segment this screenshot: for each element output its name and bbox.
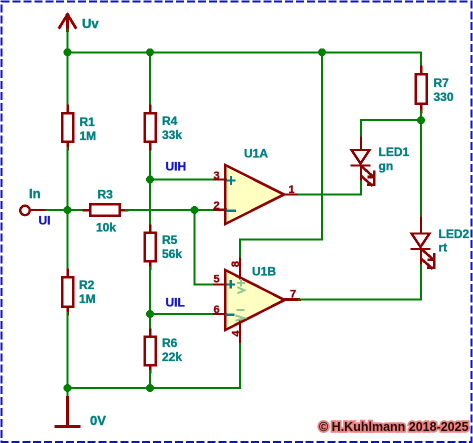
node junction R7-LED [417, 116, 425, 124]
svg-text:© H.Kuhlmann 2018-2025: © H.Kuhlmann 2018-2025 [319, 420, 469, 434]
svg-text:R3: R3 [98, 188, 114, 202]
ground 0V symbol [56, 398, 79, 427]
resistor R5 [145, 226, 156, 269]
wire top rail to R7 [68, 52, 422, 67]
svg-text:gn: gn [379, 159, 394, 173]
wire mid column between R5 R6 [149, 268, 151, 331]
svg-text:0V: 0V [90, 413, 106, 428]
wire U1B pin4 to bottom rail [239, 344, 241, 388]
node junction bottom-left [64, 384, 72, 392]
svg-text:LED1: LED1 [379, 145, 410, 159]
svg-text:LED2: LED2 [439, 227, 470, 241]
wire feed to U1B pin5 [195, 210, 215, 285]
svg-text:33k: 33k [162, 128, 182, 142]
svg-text:5: 5 [214, 274, 220, 286]
node junction top-left [64, 48, 72, 56]
wire In to left rail [47, 209, 68, 211]
wire R3 to U1A pin2 [126, 209, 215, 211]
node junction top-mid [146, 48, 154, 56]
wire R7 to junction [420, 111, 422, 120]
wire U1A output to LED1 [299, 179, 361, 195]
wire junction to LED2 [420, 120, 422, 218]
label R4 value 33k [162, 114, 182, 142]
node junction pin5 feed [191, 206, 199, 214]
svg-text:4: 4 [230, 330, 242, 337]
svg-text:Uv: Uv [82, 16, 99, 31]
svg-text:330: 330 [434, 90, 454, 104]
svg-text:R2: R2 [79, 278, 95, 292]
svg-text:1M: 1M [80, 129, 97, 143]
resistor R1 [62, 106, 73, 150]
wire left rail lower [67, 313, 69, 388]
svg-text:1: 1 [289, 184, 295, 196]
wire junction to LED1 [361, 120, 421, 138]
op-amp U1A [214, 165, 300, 224]
node junction bottom-mid [146, 384, 154, 392]
svg-text:rt: rt [439, 241, 448, 255]
svg-text:R6: R6 [162, 336, 178, 350]
label R7 value 330 [434, 76, 454, 104]
svg-text:10k: 10k [96, 221, 116, 235]
LED LED1 [352, 138, 375, 186]
node junction UIH [146, 176, 154, 184]
label R5 value 56k [162, 233, 182, 261]
resistor R7 [416, 67, 427, 113]
label R3 value 10k [96, 188, 116, 235]
wire left rail to R3 [68, 209, 85, 211]
wire ground feed [67, 388, 69, 398]
svg-text:R1: R1 [80, 115, 96, 129]
svg-text:UIL: UIL [166, 296, 185, 310]
pin In (input terminal) [20, 206, 47, 215]
wire mid column upper [149, 52, 151, 226]
wire mid column bottom [149, 371, 151, 388]
resistor R3 [84, 204, 128, 215]
label R6 value 22k [162, 336, 182, 364]
svg-text:In: In [29, 186, 41, 201]
supply symbol Uv [60, 15, 76, 31]
svg-text:1M: 1M [79, 292, 96, 306]
wire left rail middle [67, 148, 69, 271]
node junction top-U1B-power [318, 48, 326, 56]
op-amp U1B [214, 256, 300, 345]
svg-text:R5: R5 [162, 233, 178, 247]
svg-text:3: 3 [214, 170, 220, 182]
wire bottom rail [68, 387, 241, 389]
LED LED2 [412, 218, 435, 269]
wire output7 rail [299, 263, 421, 299]
resistor R4 [145, 106, 156, 150]
wire top rail to U1B pin8 [240, 52, 322, 256]
label LED2 rt [439, 227, 470, 255]
resistor R6 [145, 330, 156, 373]
wire left rail upper [67, 52, 69, 106]
svg-text:6: 6 [214, 304, 220, 316]
svg-text:22k: 22k [162, 350, 182, 364]
svg-text:R7: R7 [434, 76, 450, 90]
wire U1B output to LED2 [285, 298, 300, 300]
copyright text [319, 420, 469, 434]
resistor R2 [62, 270, 73, 314]
wire Uv stem [67, 30, 69, 53]
svg-text:UI: UI [39, 214, 51, 228]
wire UIH to U1A pin3 [150, 179, 215, 181]
node junction In-left-rail [64, 206, 72, 214]
label R2 value 1M [79, 278, 96, 306]
label LED1 gn [379, 145, 410, 173]
node junction UIL [146, 310, 154, 318]
svg-text:R4: R4 [162, 114, 178, 128]
svg-text:UIH: UIH [166, 160, 187, 174]
svg-text:2: 2 [214, 200, 220, 212]
label R1 value 1M [80, 115, 97, 143]
wire UIL to U1B pin6 [150, 313, 215, 315]
svg-text:8: 8 [230, 261, 242, 267]
svg-text:U1A: U1A [244, 147, 268, 161]
svg-text:U1B: U1B [252, 265, 276, 279]
svg-text:56k: 56k [162, 247, 182, 261]
